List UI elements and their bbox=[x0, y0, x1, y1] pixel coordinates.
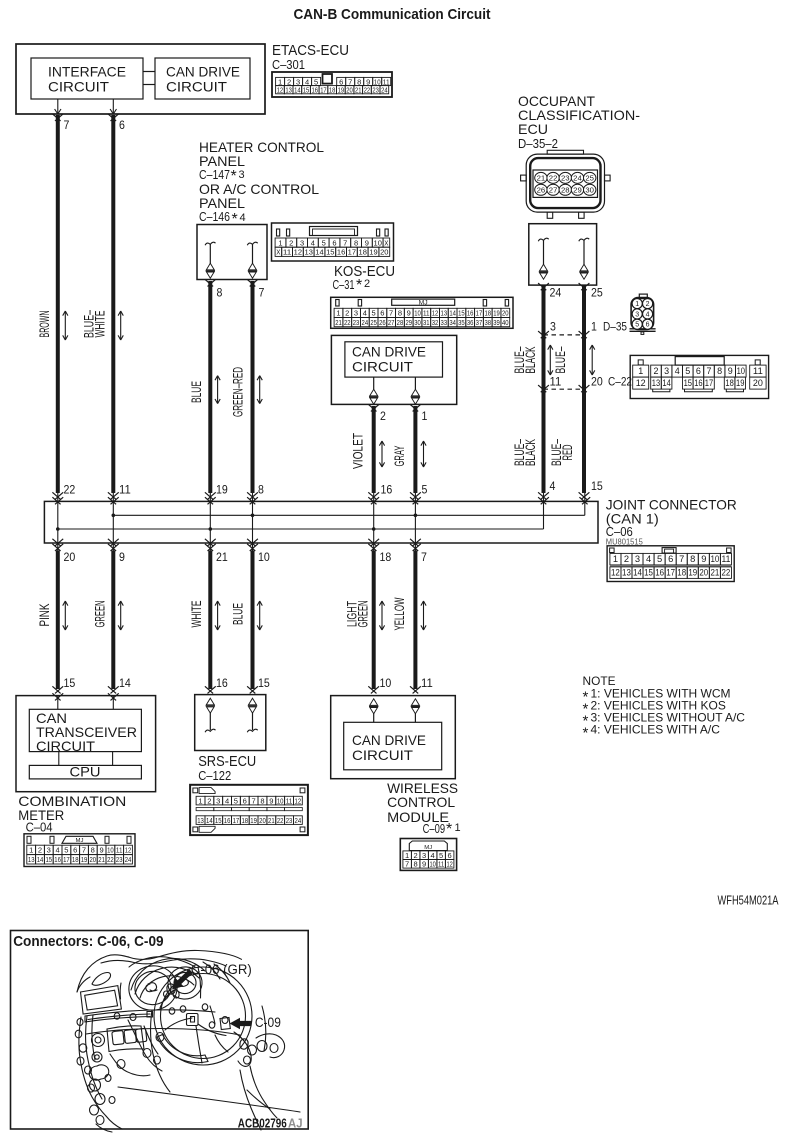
svg-text:8: 8 bbox=[354, 240, 358, 247]
svg-text:6: 6 bbox=[119, 118, 125, 132]
svg-text:11: 11 bbox=[722, 554, 731, 565]
svg-text:9: 9 bbox=[407, 311, 411, 318]
svg-text:MJ: MJ bbox=[419, 301, 428, 307]
svg-text:6: 6 bbox=[668, 554, 673, 565]
svg-text:36: 36 bbox=[467, 320, 474, 327]
svg-text:C–09: C–09 bbox=[423, 822, 446, 836]
svg-text:5: 5 bbox=[322, 240, 326, 247]
svg-text:2: 2 bbox=[654, 366, 659, 376]
svg-text:16: 16 bbox=[381, 483, 393, 497]
svg-text:16: 16 bbox=[694, 378, 702, 388]
svg-text:21: 21 bbox=[98, 855, 105, 864]
svg-text:D–35: D–35 bbox=[603, 320, 627, 334]
svg-text:6: 6 bbox=[646, 322, 650, 329]
svg-text:27: 27 bbox=[388, 320, 395, 327]
svg-text:21: 21 bbox=[355, 88, 362, 95]
svg-text:CAN-B Communication Circuit: CAN-B Communication Circuit bbox=[294, 6, 491, 23]
svg-text:3: 3 bbox=[664, 366, 669, 376]
svg-text:17: 17 bbox=[348, 250, 357, 257]
svg-text:7: 7 bbox=[421, 550, 427, 564]
svg-text:15: 15 bbox=[326, 250, 335, 257]
svg-text:27: 27 bbox=[549, 185, 558, 194]
svg-text:2: 2 bbox=[624, 554, 629, 565]
svg-text:24: 24 bbox=[125, 855, 132, 864]
svg-text:CPU: CPU bbox=[70, 764, 101, 780]
svg-text:18: 18 bbox=[72, 855, 79, 864]
svg-text:2: 2 bbox=[38, 846, 42, 855]
svg-text:6: 6 bbox=[332, 240, 336, 247]
svg-text:9: 9 bbox=[422, 860, 426, 869]
svg-text:15: 15 bbox=[215, 816, 222, 825]
svg-text:24: 24 bbox=[295, 816, 302, 825]
svg-text:14: 14 bbox=[37, 855, 44, 864]
svg-text:11: 11 bbox=[116, 846, 123, 855]
svg-text:16: 16 bbox=[337, 250, 346, 257]
svg-text:3: 3 bbox=[550, 320, 556, 334]
svg-text:*: * bbox=[446, 821, 452, 838]
svg-text:18: 18 bbox=[677, 567, 686, 578]
svg-text:11: 11 bbox=[283, 250, 292, 257]
svg-text:32: 32 bbox=[432, 320, 439, 327]
svg-text:11: 11 bbox=[550, 375, 562, 389]
svg-text:2: 2 bbox=[364, 278, 370, 290]
svg-text:11: 11 bbox=[753, 366, 763, 376]
svg-text:4: 4 bbox=[311, 240, 315, 247]
svg-text:22: 22 bbox=[722, 567, 731, 578]
svg-text:18: 18 bbox=[359, 250, 368, 257]
svg-text:*: * bbox=[583, 725, 589, 742]
svg-text:23: 23 bbox=[286, 816, 293, 825]
svg-text:3: 3 bbox=[239, 169, 245, 181]
svg-text:14: 14 bbox=[315, 250, 324, 257]
svg-text:D–35–2: D–35–2 bbox=[518, 137, 558, 151]
svg-text:16: 16 bbox=[467, 311, 474, 318]
svg-text:16: 16 bbox=[224, 816, 231, 825]
svg-text:7: 7 bbox=[707, 366, 712, 376]
svg-text:X: X bbox=[276, 250, 280, 257]
svg-text:12: 12 bbox=[447, 860, 453, 869]
svg-text:BLACK: BLACK bbox=[522, 346, 538, 373]
svg-text:7: 7 bbox=[405, 860, 409, 869]
svg-text:MU801515: MU801515 bbox=[606, 537, 643, 547]
svg-text:24: 24 bbox=[550, 286, 562, 300]
svg-text:C–04: C–04 bbox=[26, 821, 53, 835]
svg-text:22: 22 bbox=[107, 855, 114, 864]
svg-text:19: 19 bbox=[369, 250, 378, 257]
svg-text:11: 11 bbox=[421, 676, 433, 690]
svg-text:30: 30 bbox=[585, 185, 594, 194]
svg-text:7: 7 bbox=[82, 846, 86, 855]
svg-text:13: 13 bbox=[652, 378, 660, 388]
svg-text:26: 26 bbox=[537, 185, 546, 194]
svg-text:3: 3 bbox=[354, 311, 358, 318]
svg-text:C–147: C–147 bbox=[199, 168, 230, 182]
svg-text:PINK: PINK bbox=[36, 603, 52, 626]
svg-text:CAN DRIVE: CAN DRIVE bbox=[352, 344, 426, 360]
svg-text:1: 1 bbox=[455, 822, 461, 834]
svg-text:CIRCUIT: CIRCUIT bbox=[48, 79, 109, 95]
svg-text:3: 3 bbox=[300, 240, 304, 247]
svg-text:30: 30 bbox=[414, 320, 421, 327]
svg-text:18: 18 bbox=[329, 88, 336, 95]
svg-text:X: X bbox=[384, 240, 388, 247]
svg-text:14: 14 bbox=[449, 311, 456, 318]
svg-text:18: 18 bbox=[380, 550, 392, 564]
svg-text:21: 21 bbox=[710, 567, 719, 578]
svg-text:10: 10 bbox=[380, 676, 392, 690]
svg-text:14: 14 bbox=[294, 88, 301, 95]
svg-text:38: 38 bbox=[484, 320, 491, 327]
svg-text:CAN DRIVE: CAN DRIVE bbox=[352, 732, 426, 748]
svg-text:33: 33 bbox=[441, 320, 448, 327]
svg-text:1: 1 bbox=[29, 846, 33, 855]
svg-text:CIRCUIT: CIRCUIT bbox=[352, 359, 413, 375]
svg-text:15: 15 bbox=[303, 88, 310, 95]
svg-text:8: 8 bbox=[91, 846, 95, 855]
svg-text:20: 20 bbox=[346, 88, 353, 95]
svg-text:20: 20 bbox=[699, 567, 708, 578]
svg-text:4: 4 bbox=[646, 554, 651, 565]
svg-text:VIOLET: VIOLET bbox=[350, 433, 366, 469]
svg-text:MJ: MJ bbox=[76, 838, 84, 844]
svg-text:8: 8 bbox=[690, 554, 695, 565]
svg-text:12: 12 bbox=[432, 311, 439, 318]
svg-text:4: 4 bbox=[646, 311, 650, 318]
svg-text:21: 21 bbox=[216, 550, 228, 564]
svg-text:3: 3 bbox=[216, 796, 220, 805]
svg-text:21: 21 bbox=[335, 320, 342, 327]
svg-text:10: 10 bbox=[710, 554, 719, 565]
svg-text:6: 6 bbox=[696, 366, 701, 376]
svg-text:15: 15 bbox=[644, 567, 653, 578]
svg-text:5: 5 bbox=[657, 554, 662, 565]
svg-text:11: 11 bbox=[423, 311, 430, 318]
svg-text:23: 23 bbox=[372, 88, 379, 95]
svg-text:CIRCUIT: CIRCUIT bbox=[352, 747, 413, 763]
svg-text:1: 1 bbox=[591, 320, 597, 334]
svg-text:22: 22 bbox=[364, 88, 371, 95]
svg-text:1: 1 bbox=[198, 796, 202, 805]
svg-text:28: 28 bbox=[397, 320, 404, 327]
svg-text:GRAY: GRAY bbox=[391, 445, 407, 466]
svg-text:GREEN: GREEN bbox=[355, 601, 371, 628]
svg-text:WHITE: WHITE bbox=[188, 601, 204, 628]
svg-text:RED: RED bbox=[559, 445, 575, 461]
svg-text:2: 2 bbox=[646, 301, 650, 308]
svg-text:1: 1 bbox=[278, 240, 282, 247]
svg-text:15: 15 bbox=[46, 855, 53, 864]
svg-text:2: 2 bbox=[345, 311, 349, 318]
svg-text:10: 10 bbox=[374, 240, 383, 247]
svg-text:9: 9 bbox=[100, 846, 104, 855]
svg-text:11: 11 bbox=[438, 860, 444, 869]
svg-text:8: 8 bbox=[217, 286, 223, 300]
svg-text:20: 20 bbox=[591, 375, 603, 389]
svg-text:5: 5 bbox=[372, 311, 376, 318]
svg-text:7: 7 bbox=[252, 796, 256, 805]
svg-text:16: 16 bbox=[54, 855, 61, 864]
svg-text:*: * bbox=[356, 277, 362, 294]
svg-text:10: 10 bbox=[414, 311, 421, 318]
svg-text:15: 15 bbox=[684, 378, 692, 388]
svg-text:19: 19 bbox=[81, 855, 88, 864]
svg-text:22: 22 bbox=[277, 816, 284, 825]
svg-text:PANEL: PANEL bbox=[199, 195, 245, 211]
svg-text:12: 12 bbox=[295, 796, 302, 805]
svg-text:BLUE: BLUE bbox=[188, 381, 204, 403]
svg-text:2: 2 bbox=[380, 409, 386, 423]
svg-text:8: 8 bbox=[398, 311, 402, 318]
svg-text:4: 4 bbox=[363, 311, 367, 318]
svg-text:GREEN: GREEN bbox=[92, 601, 108, 628]
svg-text:13: 13 bbox=[305, 250, 314, 257]
svg-text:5: 5 bbox=[685, 366, 690, 376]
svg-text:CIRCUIT: CIRCUIT bbox=[36, 738, 95, 754]
svg-text:WFH54M021A: WFH54M021A bbox=[718, 893, 779, 908]
svg-text:11: 11 bbox=[286, 796, 293, 805]
svg-text:WHITE: WHITE bbox=[92, 311, 108, 338]
svg-text:19: 19 bbox=[338, 88, 345, 95]
svg-text:ECU: ECU bbox=[518, 121, 548, 137]
svg-text:34: 34 bbox=[449, 320, 456, 327]
svg-text:20: 20 bbox=[259, 816, 266, 825]
svg-text:4: VEHICLES WITH A/C: 4: VEHICLES WITH A/C bbox=[591, 723, 721, 737]
svg-text:23: 23 bbox=[116, 855, 123, 864]
svg-text:28: 28 bbox=[561, 185, 570, 194]
svg-text:13: 13 bbox=[441, 311, 448, 318]
svg-text:12: 12 bbox=[294, 250, 303, 257]
svg-text:24: 24 bbox=[381, 88, 388, 95]
svg-text:AJ: AJ bbox=[288, 1116, 303, 1131]
svg-text:9: 9 bbox=[269, 796, 273, 805]
svg-text:21: 21 bbox=[268, 816, 275, 825]
svg-text:BROWN: BROWN bbox=[36, 311, 52, 338]
svg-text:10: 10 bbox=[737, 366, 745, 376]
svg-text:*: * bbox=[232, 211, 238, 228]
svg-text:C–301: C–301 bbox=[272, 58, 305, 72]
svg-text:23: 23 bbox=[353, 320, 360, 327]
svg-text:BLUE: BLUE bbox=[230, 603, 246, 625]
svg-text:3: 3 bbox=[47, 846, 51, 855]
svg-text:16: 16 bbox=[312, 88, 319, 95]
svg-text:25: 25 bbox=[585, 173, 594, 182]
svg-text:ETACS-ECU: ETACS-ECU bbox=[272, 42, 349, 59]
svg-text:12: 12 bbox=[125, 846, 132, 855]
svg-text:16: 16 bbox=[216, 676, 228, 690]
svg-text:C–31: C–31 bbox=[333, 278, 355, 292]
svg-text:1: 1 bbox=[336, 311, 340, 318]
svg-text:C–146: C–146 bbox=[199, 210, 230, 224]
svg-text:22: 22 bbox=[64, 483, 76, 497]
svg-text:17: 17 bbox=[320, 88, 327, 95]
svg-text:13: 13 bbox=[622, 567, 631, 578]
svg-text:2: 2 bbox=[289, 240, 293, 247]
svg-text:1: 1 bbox=[635, 301, 639, 308]
svg-text:17: 17 bbox=[705, 378, 713, 388]
svg-text:18: 18 bbox=[725, 378, 733, 388]
svg-text:7: 7 bbox=[679, 554, 684, 565]
svg-text:29: 29 bbox=[573, 185, 582, 194]
svg-text:7: 7 bbox=[389, 311, 393, 318]
svg-text:CONTROL: CONTROL bbox=[387, 794, 455, 810]
svg-text:14: 14 bbox=[119, 676, 131, 690]
svg-text:7: 7 bbox=[343, 240, 347, 247]
svg-text:15: 15 bbox=[458, 311, 465, 318]
svg-text:18: 18 bbox=[484, 311, 491, 318]
svg-text:C–22: C–22 bbox=[608, 375, 632, 389]
svg-text:C-09: C-09 bbox=[255, 1015, 281, 1030]
svg-text:26: 26 bbox=[379, 320, 386, 327]
svg-text:C–122: C–122 bbox=[198, 769, 231, 783]
svg-text:6: 6 bbox=[380, 311, 384, 318]
svg-text:8: 8 bbox=[260, 796, 264, 805]
svg-text:PANEL: PANEL bbox=[199, 153, 245, 169]
svg-text:3: 3 bbox=[635, 311, 639, 318]
svg-text:13: 13 bbox=[197, 816, 204, 825]
svg-text:15: 15 bbox=[258, 676, 270, 690]
svg-text:8: 8 bbox=[717, 366, 722, 376]
svg-text:17: 17 bbox=[666, 567, 675, 578]
svg-text:15: 15 bbox=[64, 676, 76, 690]
svg-text:4: 4 bbox=[550, 479, 556, 493]
svg-text:4: 4 bbox=[675, 366, 680, 376]
svg-text:13: 13 bbox=[28, 855, 35, 864]
svg-text:SRS-ECU: SRS-ECU bbox=[198, 753, 256, 770]
svg-text:9: 9 bbox=[701, 554, 706, 565]
svg-text:5: 5 bbox=[234, 796, 238, 805]
svg-text:9: 9 bbox=[119, 550, 125, 564]
svg-text:11: 11 bbox=[119, 483, 131, 497]
svg-text:10: 10 bbox=[107, 846, 114, 855]
svg-text:37: 37 bbox=[476, 320, 483, 327]
svg-text:20: 20 bbox=[90, 855, 97, 864]
svg-text:35: 35 bbox=[458, 320, 465, 327]
svg-text:19: 19 bbox=[688, 567, 697, 578]
svg-text:19: 19 bbox=[216, 483, 228, 497]
svg-text:YELLOW: YELLOW bbox=[391, 597, 407, 630]
svg-text:31: 31 bbox=[423, 320, 430, 327]
svg-text:17: 17 bbox=[63, 855, 70, 864]
svg-text:17: 17 bbox=[476, 311, 483, 318]
svg-text:BLACK: BLACK bbox=[522, 439, 538, 466]
svg-text:5: 5 bbox=[422, 483, 428, 497]
svg-text:25: 25 bbox=[370, 320, 377, 327]
svg-text:39: 39 bbox=[493, 320, 500, 327]
svg-text:14: 14 bbox=[662, 378, 670, 388]
svg-text:21: 21 bbox=[537, 173, 546, 182]
svg-text:14: 14 bbox=[206, 816, 213, 825]
svg-text:19: 19 bbox=[250, 816, 257, 825]
svg-text:12: 12 bbox=[611, 567, 620, 578]
svg-text:7: 7 bbox=[64, 118, 70, 132]
svg-text:20: 20 bbox=[753, 378, 763, 388]
svg-text:14: 14 bbox=[633, 567, 642, 578]
svg-text:40: 40 bbox=[502, 320, 509, 327]
svg-text:2: 2 bbox=[207, 796, 211, 805]
svg-text:9: 9 bbox=[365, 240, 369, 247]
svg-text:10: 10 bbox=[258, 550, 270, 564]
svg-text:Connectors: C-06, C-09: Connectors: C-06, C-09 bbox=[13, 933, 163, 950]
svg-text:19: 19 bbox=[493, 311, 500, 318]
svg-text:10: 10 bbox=[430, 860, 436, 869]
svg-text:17: 17 bbox=[233, 816, 240, 825]
svg-text:3: 3 bbox=[635, 554, 640, 565]
svg-text:5: 5 bbox=[64, 846, 68, 855]
svg-text:9: 9 bbox=[728, 366, 733, 376]
svg-text:ACB02796: ACB02796 bbox=[238, 1116, 287, 1131]
svg-text:8: 8 bbox=[414, 860, 418, 869]
svg-text:20: 20 bbox=[64, 550, 76, 564]
svg-text:12: 12 bbox=[636, 378, 646, 388]
svg-text:1: 1 bbox=[613, 554, 618, 565]
svg-text:24: 24 bbox=[573, 173, 582, 182]
svg-text:7: 7 bbox=[259, 286, 265, 300]
svg-text:19: 19 bbox=[736, 378, 744, 388]
svg-text:22: 22 bbox=[344, 320, 351, 327]
svg-text:6: 6 bbox=[243, 796, 247, 805]
svg-text:1: 1 bbox=[638, 366, 643, 376]
svg-text:23: 23 bbox=[561, 173, 570, 182]
svg-text:25: 25 bbox=[591, 286, 603, 300]
svg-text:18: 18 bbox=[241, 816, 248, 825]
svg-text:12: 12 bbox=[277, 88, 284, 95]
svg-text:24: 24 bbox=[362, 320, 369, 327]
svg-text:BLUE–: BLUE– bbox=[552, 346, 568, 373]
svg-text:22: 22 bbox=[549, 173, 558, 182]
svg-text:4: 4 bbox=[225, 796, 229, 805]
svg-text:INTERFACE: INTERFACE bbox=[48, 64, 126, 80]
svg-text:13: 13 bbox=[285, 88, 292, 95]
svg-text:4: 4 bbox=[56, 846, 60, 855]
svg-text:6: 6 bbox=[73, 846, 77, 855]
svg-text:GREEN–RED: GREEN–RED bbox=[230, 367, 246, 417]
svg-text:20: 20 bbox=[502, 311, 509, 318]
svg-text:29: 29 bbox=[405, 320, 412, 327]
svg-text:CAN DRIVE: CAN DRIVE bbox=[166, 64, 240, 80]
svg-text:1: 1 bbox=[422, 409, 428, 423]
svg-text:16: 16 bbox=[655, 567, 664, 578]
svg-text:CIRCUIT: CIRCUIT bbox=[166, 79, 227, 95]
svg-text:20: 20 bbox=[380, 250, 389, 257]
svg-text:4: 4 bbox=[240, 212, 246, 224]
svg-text:15: 15 bbox=[591, 479, 603, 493]
svg-text:10: 10 bbox=[277, 796, 284, 805]
svg-text:8: 8 bbox=[258, 483, 264, 497]
svg-text:5: 5 bbox=[635, 322, 639, 329]
